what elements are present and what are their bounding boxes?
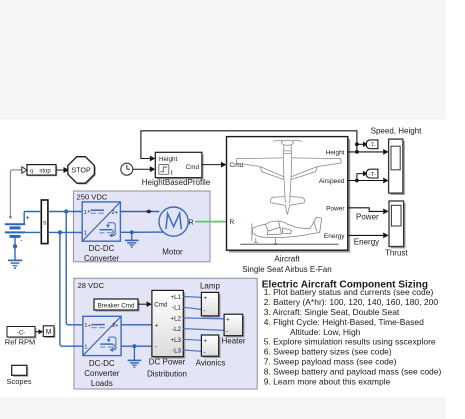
svg-text:+: + [155, 322, 159, 329]
svg-text:q: q [30, 169, 33, 175]
svg-text:Loads: Loads [91, 379, 113, 388]
aircraft icon: side view [240, 217, 338, 244]
mechanical wire motor R to Aircraft R (green) [195, 221, 227, 223]
Airspeed signal wire [348, 180, 384, 182]
wire -L1 to Lamp [183, 307, 201, 309]
svg-text:2+: 2+ [112, 210, 118, 216]
svg-text:2. Battery (A*hr): 100, 120, 1: 2. Battery (A*hr): 100, 120, 140, 160, 1… [264, 297, 439, 307]
node for ground (28V) [132, 344, 136, 348]
wire bottom bus down to 28V converter [60, 232, 83, 346]
svg-text:t: t [171, 170, 173, 177]
svg-text:3. Aircraft: Single Seat, Doub: 3. Aircraft: Single Seat, Double Seat [264, 307, 400, 317]
svg-text:Energy: Energy [354, 237, 379, 246]
wire q stop to STOP [56, 169, 64, 171]
svg-text:7. Sweep payload mass (see cod: 7. Sweep payload mass (see code) [264, 357, 397, 367]
Aircraft block [227, 137, 351, 253]
Heater block [224, 314, 244, 337]
battery B1 [5, 212, 30, 261]
svg-text:1: 1 [84, 345, 87, 351]
svg-text:6. Sweep battery sizes (see co: 6. Sweep battery sizes (see code) [264, 347, 392, 357]
svg-text:-: - [155, 344, 157, 351]
svg-text:+: + [203, 295, 207, 302]
svg-text:Energy: Energy [324, 233, 345, 240]
s-bar busbar block [41, 200, 48, 244]
subsystem area 28 VDC [74, 278, 257, 389]
Thrust scope [389, 201, 406, 248]
svg-text:Cmd: Cmd [186, 164, 200, 171]
Height signal wire [348, 151, 384, 153]
svg-text:+L1: +L1 [171, 294, 182, 301]
Breaker Cmd block [94, 299, 140, 312]
DC Power Distribution block [152, 290, 185, 358]
Avionics block [201, 335, 220, 358]
physical signal wire (battery charge to q stop) [9, 170, 21, 218]
svg-text:2+: 2+ [112, 323, 118, 329]
svg-text:Aircraft: Aircraft [274, 255, 300, 264]
svg-text:-: - [203, 349, 205, 356]
svg-text:Converter: Converter [84, 369, 119, 378]
svg-text:Height: Height [159, 156, 177, 163]
svg-text:Scopes: Scopes [6, 377, 31, 386]
Speed, Height scope [389, 139, 405, 195]
wire +L2 to Heater [183, 318, 224, 319]
svg-text:Breaker Cmd: Breaker Cmd [97, 302, 135, 309]
svg-text:DC Power: DC Power [149, 358, 186, 367]
ground (28V) [128, 346, 142, 368]
wire top bus down to 28V converter [66, 212, 83, 325]
DC-DC Converter Loads [83, 316, 121, 355]
svg-text:HeightBasedProfile: HeightBasedProfile [142, 178, 211, 187]
svg-text:R: R [230, 219, 235, 226]
svg-text:M: M [46, 329, 52, 336]
Ref RPM constant block [7, 327, 37, 339]
svg-text:-L1: -L1 [172, 305, 182, 312]
svg-text:Ref RPM: Ref RPM [5, 338, 35, 347]
DC-DC Converter (250V) [82, 202, 120, 241]
svg-text:+: + [26, 215, 30, 222]
svg-text:Height: Height [326, 150, 345, 157]
wire Breaker Cmd to DC Power Distribution [138, 303, 147, 305]
svg-text:28 VDC: 28 VDC [78, 281, 105, 290]
aircraft icon: top view [237, 140, 341, 214]
svg-text:Power: Power [326, 205, 345, 212]
wire clock to HeightBasedProfile t [133, 168, 150, 170]
wire loads converter to DCPD (bottom) [121, 345, 152, 347]
q stop block input port triangle [22, 167, 27, 173]
svg-text:+: + [203, 338, 207, 345]
top gray band [0, 0, 446, 120]
Power signal wire [348, 208, 384, 212]
svg-text:+L2: +L2 [171, 315, 182, 322]
wire battery + to busbar (top bus) [24, 211, 41, 213]
svg-text:STOP: STOP [71, 166, 91, 175]
svg-text:Distribution: Distribution [147, 369, 187, 378]
svg-text:-: - [21, 237, 23, 244]
ground (250V) [125, 232, 139, 248]
node on goto branch [355, 142, 359, 146]
wire converter to motor (bottom) [120, 231, 163, 233]
svg-text:Lamp: Lamp [200, 282, 221, 291]
node on top bus [64, 209, 68, 213]
svg-text:1. Plot battery status and cur: 1. Plot battery status and currents (see… [264, 287, 434, 297]
feedback wire Height to HeightBasedProfile [141, 131, 357, 162]
svg-text:Altitude: Low, High: Altitude: Low, High [290, 327, 361, 337]
svg-text:Motor: Motor [162, 248, 183, 257]
svg-text:-C-: -C- [17, 331, 25, 337]
svg-text:-: - [203, 307, 205, 314]
node on Airspeed wire [355, 179, 359, 183]
svg-text:4. Flight Cycle: Height-Based,: 4. Flight Cycle: Height-Based, Time-Base… [264, 317, 424, 327]
wire -L2 to Heater [183, 329, 224, 331]
motor M1 [159, 207, 188, 236]
svg-text:5. Explore simulation results: 5. Explore simulation results using ssce… [264, 337, 436, 347]
wire HeightBasedProfile Cmd to Aircraft Cmd [202, 164, 221, 166]
wire -L3 to Avionics [183, 350, 201, 351]
wire busbar to DC-DC converter (top) [48, 211, 82, 213]
goto tag T (airspeed) [366, 169, 378, 178]
svg-text:Converter: Converter [84, 254, 119, 263]
svg-text:-L3: -L3 [172, 348, 182, 355]
svg-text:Speed, Height: Speed, Height [371, 127, 422, 136]
svg-text:250 VDC: 250 VDC [77, 193, 108, 202]
node on bottom bus [58, 230, 62, 234]
polarity diamond marker [145, 209, 152, 213]
svg-text:stop: stop [39, 169, 51, 175]
wire battery mid to busbar (bottom bus) [25, 231, 41, 233]
svg-text:1: 1 [84, 231, 87, 237]
notes: Electric Aircraft Component Sizing [262, 279, 442, 386]
wire Ref RPM to goto M [35, 331, 39, 333]
svg-text:Heater: Heater [221, 337, 245, 346]
goto tag M [43, 326, 55, 338]
HeightBasedProfile block [155, 152, 203, 179]
ground (battery) [8, 260, 22, 269]
svg-text:Power: Power [356, 212, 379, 221]
svg-text:-T-: -T- [369, 143, 376, 149]
svg-text:+: + [226, 316, 230, 323]
svg-text:DC-DC: DC-DC [89, 359, 115, 368]
svg-text:DC-DC: DC-DC [89, 244, 115, 253]
q stop block [27, 165, 57, 177]
svg-text:-T-: -T- [369, 172, 376, 178]
STOP block S1 (octagon) [68, 157, 96, 185]
wire converter to motor (top) [120, 211, 159, 213]
svg-text:Avionics: Avionics [196, 359, 226, 368]
svg-text:+: + [87, 209, 90, 215]
svg-text:8. Sweep battery and payload m: 8. Sweep battery and payload mass (see c… [264, 366, 442, 376]
svg-text:Cmd: Cmd [154, 301, 168, 308]
wire +L3 to Avionics [183, 339, 201, 340]
svg-text:R: R [189, 219, 194, 226]
svg-text:-L2: -L2 [172, 326, 182, 333]
Lamp block [201, 292, 220, 317]
svg-text:-: - [226, 328, 228, 335]
subsystem area 250 VDC [74, 191, 211, 262]
svg-text:+: + [88, 323, 91, 329]
node for ground (250V) [130, 230, 134, 234]
svg-text:Airspeed: Airspeed [319, 178, 345, 185]
goto tag T (height) [366, 140, 378, 149]
svg-text:Single Seat Airbus E-Fan: Single Seat Airbus E-Fan [242, 265, 331, 274]
wire loads converter to DCPD (top) [121, 324, 152, 326]
wire +L1 to Lamp [183, 296, 201, 299]
wire busbar to DC-DC converter (bottom) [48, 231, 82, 233]
node on Height wire [355, 150, 359, 154]
wire to goto T (height) [357, 143, 363, 145]
Energy signal wire [348, 234, 384, 236]
bottom gray band [0, 397, 446, 419]
clock [121, 163, 133, 175]
svg-text:9. Learn more about this examp: 9. Learn more about this example [264, 376, 391, 386]
svg-text:Thrust: Thrust [385, 249, 408, 258]
svg-text:+L3: +L3 [171, 337, 182, 344]
wire to goto T (airspeed) [357, 174, 363, 181]
Scopes block [12, 365, 29, 377]
